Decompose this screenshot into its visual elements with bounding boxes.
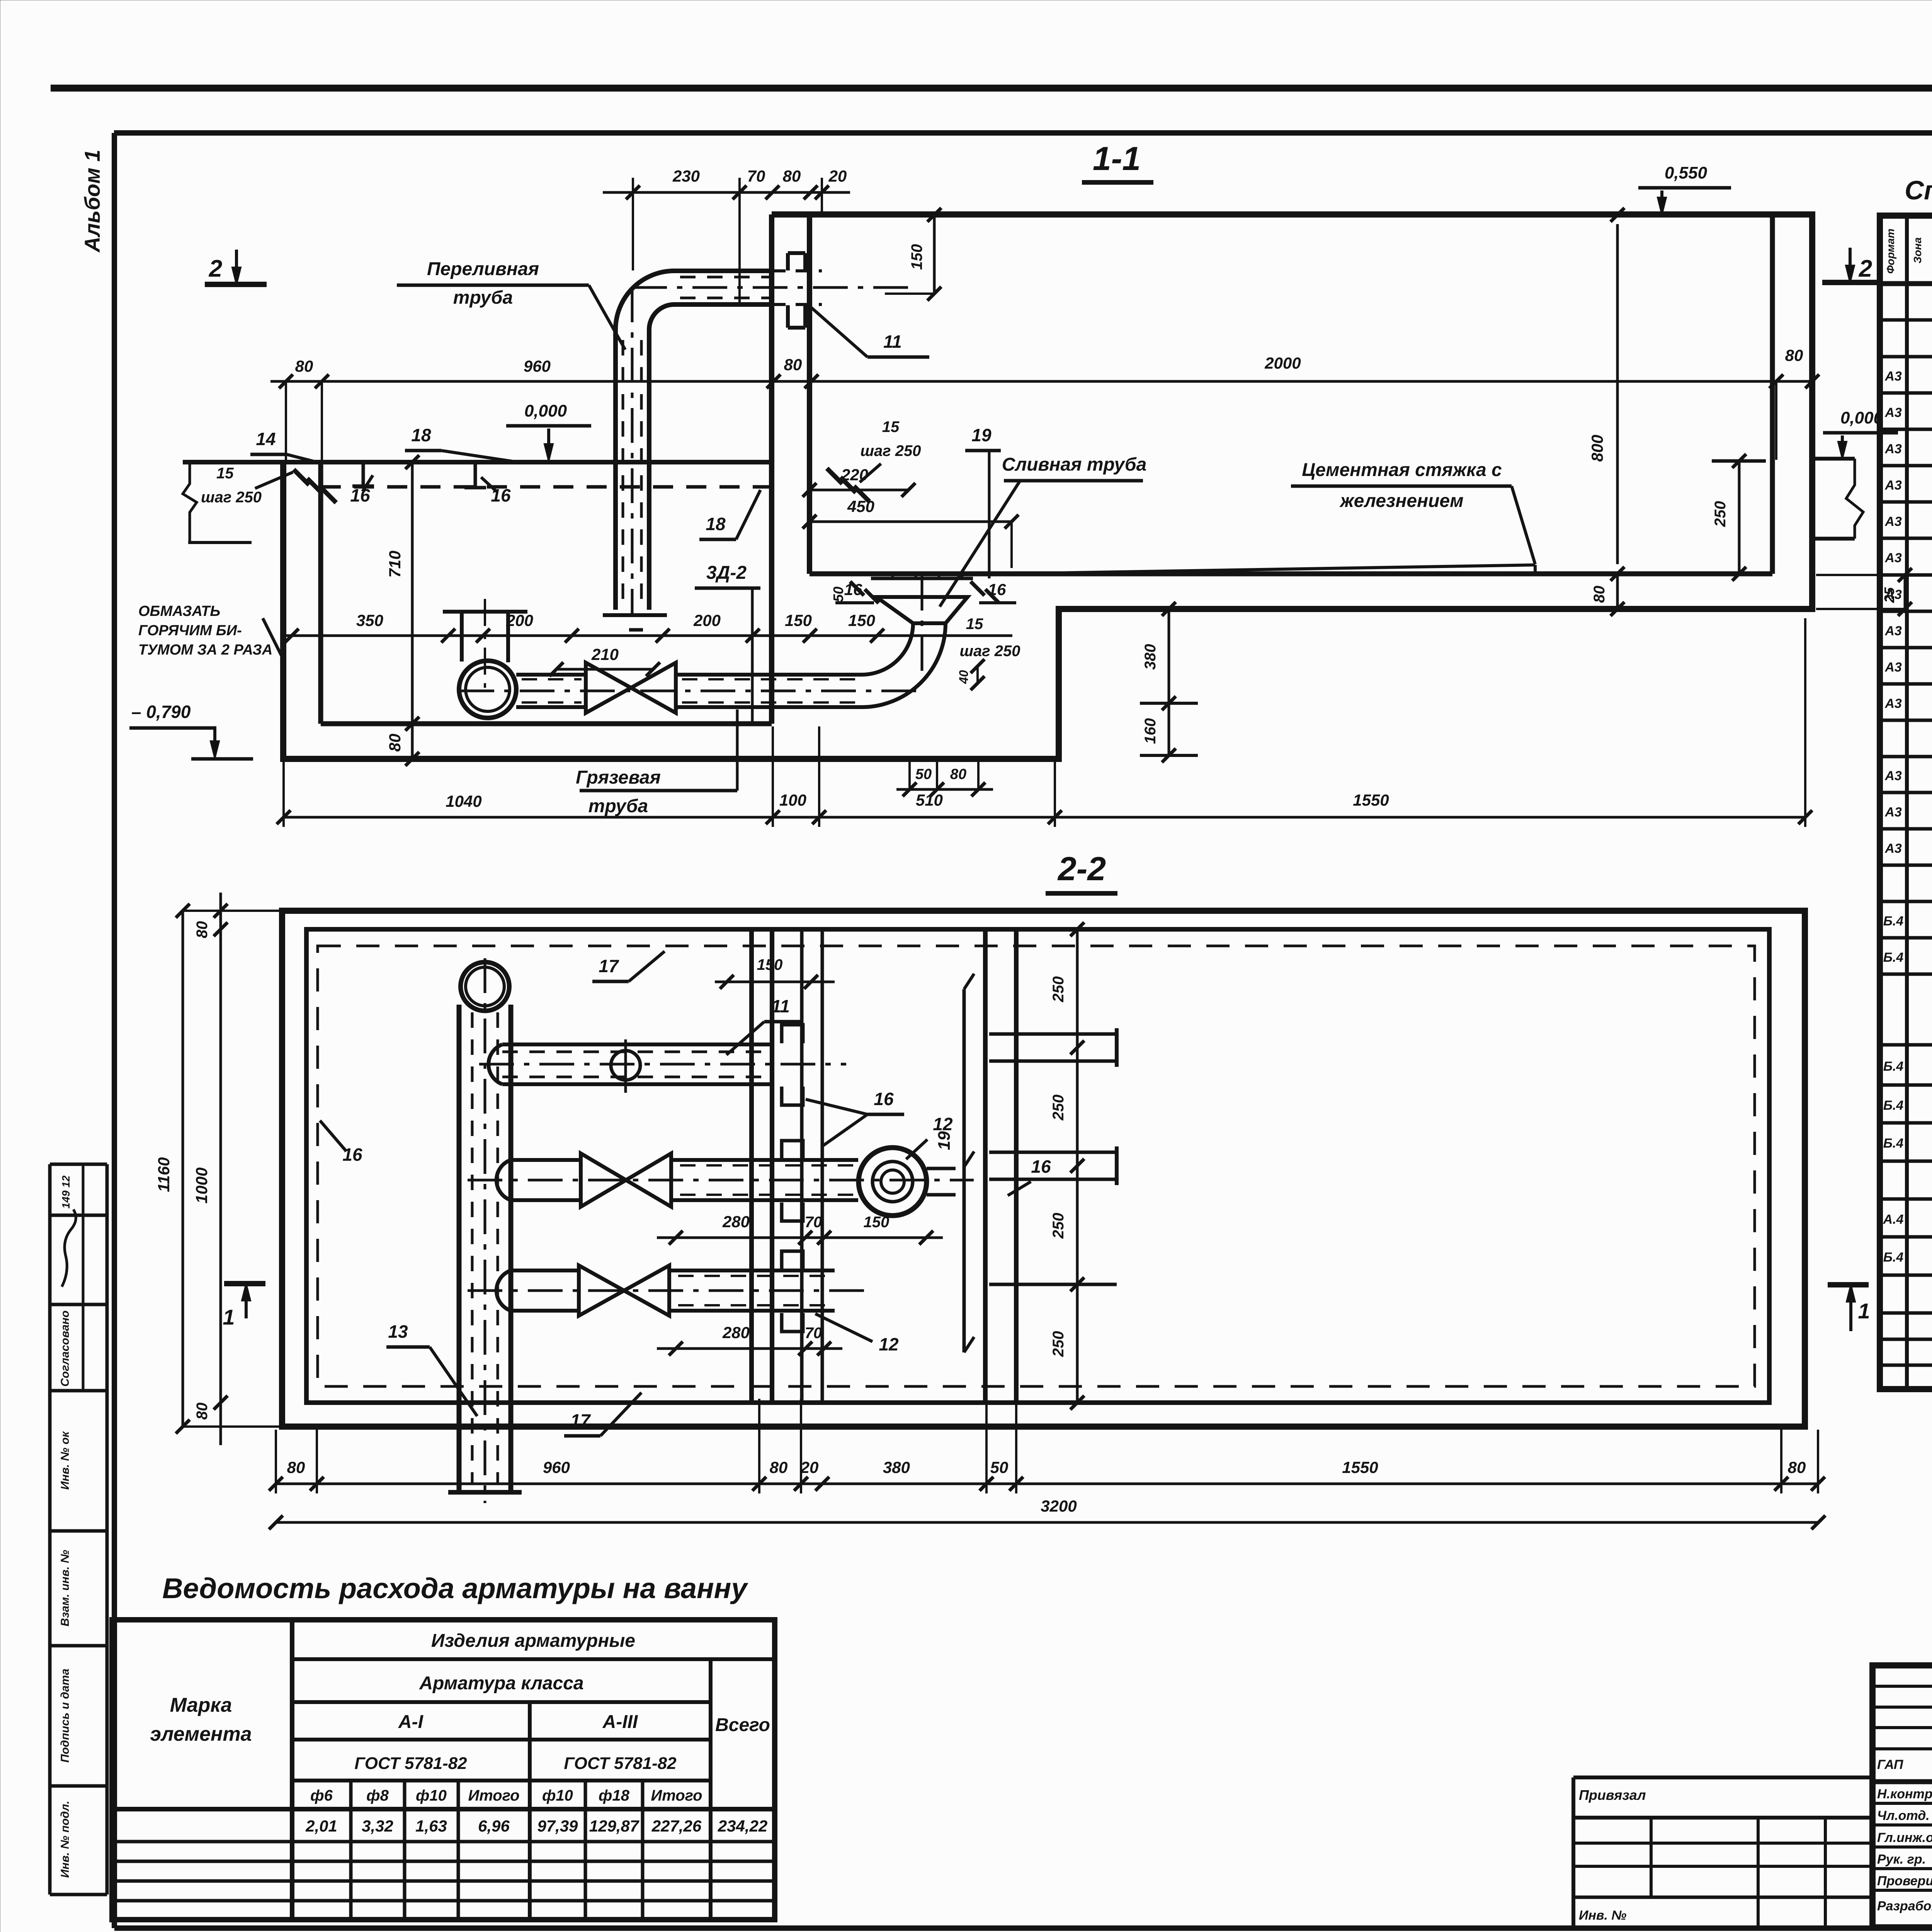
svg-text:1000: 1000 — [192, 1167, 211, 1203]
svg-text:1550: 1550 — [1353, 791, 1389, 809]
svg-text:250: 250 — [1050, 1213, 1067, 1239]
svg-text:200: 200 — [506, 611, 533, 629]
svg-text:70: 70 — [747, 167, 765, 185]
plan middle pipe wall anchors — [782, 1141, 803, 1159]
svg-text:80: 80 — [295, 357, 313, 375]
dim 25 right — [1904, 575, 1906, 609]
funnel centerline — [921, 576, 923, 680]
svg-text:Марка: Марка — [170, 1694, 232, 1716]
svg-text:Итого: Итого — [468, 1787, 519, 1804]
svg-text:ГОСТ 5781-82: ГОСТ 5781-82 — [354, 1754, 467, 1773]
dim 150 vertical — [933, 215, 936, 294]
rebar hooks at funnel — [850, 582, 864, 595]
svg-text:80: 80 — [784, 355, 802, 374]
svg-text:80: 80 — [1785, 346, 1803, 364]
plan lower pipe run — [511, 1269, 579, 1272]
shallow basin inner right wall — [1770, 214, 1775, 574]
svg-text:Разработ.: Разработ. — [1877, 1899, 1932, 1913]
svg-text:Согласовано: Согласовано — [59, 1310, 71, 1386]
svg-text:15: 15 — [966, 616, 983, 633]
svg-text:100: 100 — [779, 791, 806, 809]
overflow pipe riser walls — [613, 330, 618, 610]
left rim break mark — [183, 462, 197, 543]
plan tile dashed rectangle — [318, 946, 1755, 1386]
svg-text:Н.контр.: Н.контр. — [1877, 1787, 1932, 1801]
svg-text:250: 250 — [1050, 1095, 1067, 1121]
svg-text:6,96: 6,96 — [478, 1817, 510, 1835]
svg-text:железнением: железнением — [1339, 491, 1463, 511]
plan total dim 3200 — [276, 1521, 1818, 1524]
svg-text:Переливная: Переливная — [427, 259, 539, 279]
svg-text:Инв. № подл.: Инв. № подл. — [59, 1801, 71, 1878]
svg-text:16: 16 — [342, 1145, 362, 1165]
svg-text:А-ІІІ: А-ІІІ — [602, 1712, 638, 1732]
overflow pipe inner dashed walls — [622, 340, 624, 603]
svg-text:200: 200 — [693, 611, 721, 629]
plan left dim 80 top — [214, 904, 228, 918]
svg-text:80: 80 — [1788, 1458, 1806, 1476]
svg-text:0,000: 0,000 — [1840, 408, 1883, 427]
shallow basin floor — [810, 571, 1772, 577]
svg-text:ф10: ф10 — [416, 1787, 447, 1804]
svg-text:150: 150 — [785, 611, 812, 629]
svg-text:Арматура класса: Арматура класса — [419, 1673, 583, 1694]
funnel — [876, 597, 968, 623]
svg-text:1040: 1040 — [446, 792, 481, 810]
deep bath inner left wall — [318, 462, 323, 724]
svg-text:3,32: 3,32 — [362, 1817, 393, 1835]
drain elbow to funnel — [862, 623, 913, 675]
plan middle pipe after valve — [671, 1158, 858, 1162]
cement screed wedge — [1052, 565, 1535, 573]
svg-text:50: 50 — [915, 766, 932, 782]
svg-text:149 12: 149 12 — [60, 1175, 72, 1209]
svg-text:16: 16 — [350, 485, 370, 505]
svg-text:220: 220 — [841, 466, 868, 484]
section mark 2 right — [1822, 280, 1879, 285]
spec table header bottom — [1880, 281, 1932, 286]
svg-text:элемента: элемента — [150, 1723, 252, 1745]
drain elbow bell — [459, 661, 516, 718]
svg-text:510: 510 — [916, 791, 943, 809]
svg-text:1,63: 1,63 — [415, 1817, 447, 1835]
svg-text:Итого: Итого — [651, 1787, 702, 1804]
svg-text:70: 70 — [805, 1214, 822, 1231]
level mark 0.000 left — [506, 424, 591, 428]
svg-text:Б.4: Б.4 — [1883, 1250, 1904, 1265]
frame bottom border — [114, 1925, 1932, 1931]
svg-text:Грязевая: Грязевая — [576, 767, 661, 788]
plan overflow riser pipe — [457, 1005, 462, 1492]
dim 80 bottom left vertical — [411, 724, 414, 759]
section mark 1 right — [1828, 1282, 1869, 1287]
svg-text:150: 150 — [757, 956, 783, 973]
svg-text:227,26: 227,26 — [651, 1817, 702, 1835]
spec table column lines — [1905, 216, 1909, 1389]
svg-text:Всего: Всего — [715, 1715, 770, 1735]
dim 210 — [556, 668, 653, 671]
bath outer profile section 1-1 — [283, 214, 1812, 759]
svg-text:шаг 250: шаг 250 — [860, 442, 921, 459]
svg-text:70: 70 — [805, 1325, 822, 1342]
overflow pipe hidden lines in wall — [772, 269, 822, 272]
svg-text:450: 450 — [847, 497, 874, 515]
left margin signature scribble — [62, 1209, 76, 1287]
svg-text:А3: А3 — [1884, 369, 1902, 384]
dim 800 vertical — [1616, 224, 1619, 564]
plan left dim 1000 — [219, 929, 222, 1403]
level mark 0.550 — [1638, 186, 1731, 190]
svg-text:12: 12 — [933, 1114, 953, 1134]
svg-text:ф18: ф18 — [599, 1787, 630, 1804]
svg-text:280: 280 — [722, 1213, 750, 1231]
svg-text:шаг 250: шаг 250 — [959, 643, 1020, 660]
svg-text:ф10: ф10 — [542, 1787, 573, 1804]
plan overflow pipe centerline — [484, 958, 486, 1503]
plan lower pipe valve — [579, 1265, 624, 1316]
plan dim 250 chain — [1076, 929, 1079, 1403]
water level dashed line — [321, 485, 769, 489]
svg-text:ГАП: ГАП — [1877, 1757, 1904, 1772]
svg-text:Изделия арматурные: Изделия арматурные — [431, 1631, 635, 1651]
svg-text:0,550: 0,550 — [1665, 163, 1708, 182]
svg-text:Рук. гр.: Рук. гр. — [1877, 1852, 1926, 1867]
frame left border — [112, 133, 117, 1928]
svg-text:Б.4: Б.4 — [1883, 950, 1904, 965]
plan lower pipe centerline — [468, 1289, 873, 1292]
svg-text:А3: А3 — [1884, 841, 1902, 856]
svg-text:800: 800 — [1588, 435, 1606, 462]
title block code cell line — [1872, 1779, 1932, 1784]
funnel grate line — [871, 577, 973, 580]
svg-text:150: 150 — [848, 611, 875, 629]
left margin inner divider — [82, 1164, 85, 1391]
svg-text:ГОСТ 5781-82: ГОСТ 5781-82 — [564, 1754, 677, 1773]
svg-text:210: 210 — [591, 645, 619, 663]
svg-text:шаг 250: шаг 250 — [201, 489, 262, 506]
svg-text:2-2: 2-2 — [1057, 850, 1106, 888]
svg-text:19: 19 — [971, 425, 992, 445]
svg-text:16: 16 — [874, 1089, 894, 1109]
svg-text:А3: А3 — [1884, 587, 1902, 602]
svg-text:ф8: ф8 — [366, 1787, 389, 1804]
section mark 1 left — [224, 1281, 265, 1286]
svg-text:16: 16 — [1031, 1156, 1051, 1177]
wall anchor flange поз 11 — [786, 253, 790, 270]
plan middle wall 2 — [800, 929, 804, 1403]
svg-text:ГОРЯЧИМ БИ-: ГОРЯЧИМ БИ- — [138, 622, 242, 639]
elevated wall right face — [807, 214, 812, 574]
dim 220 — [810, 489, 908, 492]
svg-text:Взам. инв. №: Взам. инв. № — [59, 1550, 71, 1626]
svg-text:1160: 1160 — [155, 1157, 173, 1192]
svg-text:А-І: А-І — [398, 1712, 424, 1732]
section mark 2 left — [205, 282, 267, 287]
plan middle pipe flange circle — [859, 1148, 927, 1216]
svg-text:40: 40 — [957, 670, 971, 684]
dim 380 vertical — [1168, 609, 1170, 703]
svg-text:380: 380 — [883, 1458, 910, 1476]
svg-text:– 0,790: – 0,790 — [131, 702, 191, 722]
plan left dim 1160 — [182, 911, 184, 1427]
svg-text:1: 1 — [223, 1305, 235, 1329]
svg-text:80: 80 — [950, 766, 966, 782]
ведомость марка column — [290, 1620, 294, 1920]
plan inner rectangle — [306, 929, 1769, 1403]
svg-text:150: 150 — [864, 1214, 889, 1231]
plan pipe 11 hidden — [502, 1051, 773, 1053]
svg-text:А3: А3 — [1884, 805, 1902, 820]
svg-text:350: 350 — [356, 611, 383, 629]
svg-text:1550: 1550 — [1342, 1458, 1378, 1476]
elevated wall left face — [769, 214, 774, 724]
svg-text:150: 150 — [908, 244, 925, 270]
привязал table — [1573, 1776, 1872, 1779]
plan middle pipe valve — [581, 1153, 626, 1207]
plan right compartment stub pipes — [989, 1032, 1117, 1036]
svg-text:2: 2 — [209, 255, 222, 282]
plan outer rectangle — [282, 911, 1805, 1427]
svg-text:труба: труба — [588, 796, 648, 816]
rebar hooks left — [294, 469, 309, 485]
plan middle pipe run — [511, 1158, 581, 1162]
svg-text:18: 18 — [411, 425, 431, 445]
svg-text:50: 50 — [990, 1458, 1009, 1476]
svg-text:2: 2 — [1859, 255, 1872, 282]
svg-text:80: 80 — [287, 1458, 305, 1476]
svg-text:1-1: 1-1 — [1093, 140, 1141, 177]
sheet top rule — [51, 85, 1932, 92]
svg-text:230: 230 — [672, 167, 700, 185]
svg-text:Формат: Формат — [1884, 229, 1896, 274]
plan dim 150 top — [715, 981, 835, 983]
plan middle pipe centerline — [468, 1179, 974, 1182]
rim angle поз 16 mid — [474, 462, 477, 488]
right edge ledge — [1812, 457, 1855, 461]
svg-text:3200: 3200 — [1041, 1497, 1077, 1515]
svg-text:Проверил: Проверил — [1877, 1874, 1932, 1888]
level mark 0.000 right — [1823, 431, 1898, 435]
dim 450 — [810, 520, 1012, 523]
svg-text:80: 80 — [386, 734, 404, 752]
plan middle wall 1 — [749, 929, 754, 1403]
ведомость sub column lines — [349, 1781, 353, 1920]
spec table row lines — [1880, 318, 1932, 322]
rim angle поз 16 left — [362, 462, 365, 486]
svg-text:А3: А3 — [1884, 442, 1902, 456]
svg-text:11: 11 — [883, 332, 902, 352]
dim 80 under floor — [1616, 574, 1619, 609]
svg-text:15: 15 — [882, 418, 900, 435]
plan pipe 11 flange circle — [611, 1051, 640, 1080]
svg-text:А.4: А.4 — [1883, 1212, 1904, 1227]
plan overflow pipe bottom cap — [448, 1490, 522, 1495]
dim 250 vertical — [1738, 461, 1741, 574]
svg-text:ТУМОМ ЗА 2 РАЗА: ТУМОМ ЗА 2 РАЗА — [138, 642, 272, 658]
svg-text:97,39: 97,39 — [537, 1817, 578, 1835]
gate valve section 1-1 — [586, 663, 631, 713]
svg-text:Ведомость расхода арматуры на: Ведомость расхода арматуры на ванну — [162, 1572, 748, 1604]
svg-text:А3: А3 — [1884, 696, 1902, 711]
drain pipe horizontal — [516, 673, 586, 677]
svg-text:160: 160 — [1142, 718, 1159, 744]
svg-text:234,22: 234,22 — [718, 1817, 767, 1835]
ведомость outer frame — [112, 1620, 775, 1920]
svg-text:ф6: ф6 — [310, 1787, 333, 1804]
overflow pipe top bend — [616, 271, 674, 330]
svg-text:Инв. № ок: Инв. № ок — [59, 1431, 71, 1490]
svg-text:2000: 2000 — [1264, 354, 1301, 372]
plan dim 280 70 150 — [657, 1236, 943, 1239]
drain pipe centerline — [459, 690, 922, 692]
dim 50 80 step — [896, 788, 993, 791]
svg-text:А3: А3 — [1884, 660, 1902, 675]
title block signature rows — [1872, 1685, 1932, 1688]
plan grate line поз 19 — [963, 989, 966, 1352]
svg-text:Инв. №: Инв. № — [1579, 1908, 1626, 1923]
svg-text:Б.4: Б.4 — [1883, 914, 1904, 929]
svg-text:Б.4: Б.4 — [1883, 1098, 1904, 1113]
svg-text:960: 960 — [543, 1458, 570, 1476]
dim chain 350 200 200 150 150 — [286, 634, 1012, 637]
drain riser stub — [460, 612, 464, 662]
svg-text:80: 80 — [770, 1458, 788, 1476]
dim 40 small — [976, 666, 979, 683]
deep bath rim line — [183, 460, 772, 464]
svg-text:80: 80 — [783, 167, 801, 185]
svg-text:Б.4: Б.4 — [1883, 1059, 1904, 1074]
svg-text:Гл.инж.овд: Гл.инж.овд — [1877, 1830, 1932, 1845]
plan pipe 11 top run — [502, 1043, 773, 1046]
svg-text:Б.4: Б.4 — [1883, 1136, 1904, 1151]
dim 710 vertical — [411, 462, 414, 724]
plan lower pipe wall anchors — [782, 1251, 803, 1270]
plan middle wall 3 — [983, 929, 988, 1403]
ведомость header lines — [292, 1657, 775, 1661]
svg-text:А3: А3 — [1884, 551, 1902, 565]
overflow pipe centerline — [631, 287, 634, 614]
svg-text:Чл.отд.: Чл.отд. — [1877, 1808, 1930, 1823]
svg-text:17: 17 — [570, 1410, 591, 1430]
svg-text:380: 380 — [1142, 644, 1159, 670]
plan pipe 11 wall anchors — [782, 1025, 803, 1043]
svg-text:0,000: 0,000 — [524, 401, 567, 420]
svg-text:129,87: 129,87 — [589, 1817, 639, 1835]
drain pipe to funnel — [676, 673, 862, 677]
plan lower pipe after valve — [669, 1269, 835, 1272]
svg-text:Альбом 1: Альбом 1 — [80, 150, 104, 253]
ведомость data row lines — [112, 1840, 775, 1844]
svg-text:250: 250 — [1050, 1331, 1067, 1357]
svg-text:250: 250 — [1712, 501, 1729, 527]
deep bath inner bottom — [321, 721, 772, 726]
svg-text:20: 20 — [828, 167, 847, 185]
svg-text:Привязал: Привязал — [1579, 1787, 1646, 1803]
overflow pipe horizontal run — [674, 269, 772, 273]
plan bottom dim chain — [276, 1483, 1818, 1485]
left margin box column — [50, 1163, 107, 1166]
svg-text:11: 11 — [771, 996, 790, 1016]
svg-text:Спецификация элементов ванны м: Спецификация элементов ванны мойки спецо… — [1905, 175, 1932, 205]
svg-text:1: 1 — [1858, 1299, 1870, 1323]
svg-text:20: 20 — [800, 1458, 819, 1476]
svg-text:А3: А3 — [1884, 514, 1902, 529]
frame top border — [114, 130, 1932, 136]
dim chain 230 70 80 20 — [603, 191, 850, 194]
svg-text:А3: А3 — [1884, 405, 1902, 420]
svg-text:3Д-2: 3Д-2 — [706, 563, 747, 583]
svg-text:15: 15 — [216, 465, 234, 482]
svg-text:Сливная труба: Сливная труба — [1002, 454, 1147, 475]
svg-text:14: 14 — [256, 429, 276, 449]
overflow pipe bottom opening cap — [603, 613, 667, 617]
dim 160 vertical — [1168, 703, 1170, 755]
svg-text:труба: труба — [453, 287, 513, 308]
svg-text:Подпись и дата: Подпись и дата — [59, 1668, 71, 1762]
title block outer frame — [1872, 1665, 1932, 1927]
svg-text:80: 80 — [194, 1403, 211, 1420]
svg-text:80: 80 — [194, 921, 211, 939]
svg-text:17: 17 — [599, 956, 619, 976]
plan middle pipe stub — [927, 1167, 956, 1170]
rebar hooks right — [827, 468, 842, 484]
svg-text:Зона: Зона — [1912, 237, 1923, 264]
svg-text:18: 18 — [706, 514, 726, 534]
plan pipe 11 centerline — [479, 1063, 846, 1066]
svg-text:80: 80 — [1591, 586, 1608, 603]
spec table outer frame — [1880, 216, 1932, 1389]
svg-text:250: 250 — [1050, 976, 1067, 1003]
svg-text:ОБМАЗАТЬ: ОБМАЗАТЬ — [138, 603, 220, 619]
svg-text:Цементная стяжка с: Цементная стяжка с — [1302, 460, 1502, 480]
dim chain 1040 100 510 1550 — [283, 816, 1805, 819]
plan dim 280 70 lower — [657, 1347, 842, 1350]
svg-text:960: 960 — [524, 357, 551, 375]
svg-text:А3: А3 — [1884, 478, 1902, 493]
svg-text:А3: А3 — [1884, 769, 1902, 783]
svg-text:12: 12 — [879, 1334, 899, 1354]
svg-text:2,01: 2,01 — [305, 1817, 337, 1835]
svg-text:А3: А3 — [1884, 624, 1902, 638]
plan overflow pipe inner dashed — [471, 1012, 474, 1484]
right edge break line — [1846, 459, 1863, 539]
svg-text:280: 280 — [722, 1323, 750, 1342]
plan overflow riser circle — [461, 962, 509, 1011]
svg-text:13: 13 — [388, 1321, 408, 1342]
svg-text:710: 710 — [386, 551, 404, 578]
dim chain 80 960 80 2000 80 — [270, 380, 1812, 383]
